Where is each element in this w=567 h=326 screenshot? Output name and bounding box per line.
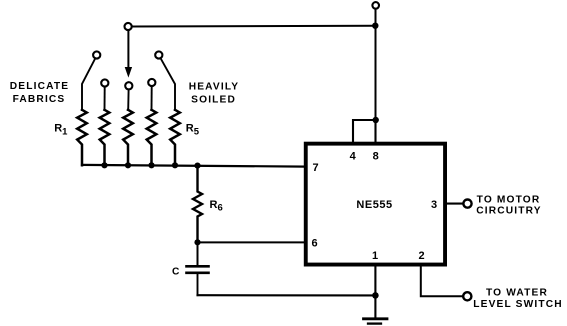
switch contact 3 [125, 82, 132, 89]
terminal: selector common [125, 23, 132, 30]
svg-text:3: 3 [431, 199, 437, 211]
svg-text:NE555: NE555 [356, 199, 392, 211]
capacitor C [197, 242, 199, 265]
wire: pin 2 to water level switch [421, 265, 462, 296]
wire: contact5 to R5 [161, 58, 175, 110]
op-amp U1: NE555 body [306, 144, 445, 265]
node [172, 162, 178, 168]
svg-text:1: 1 [372, 250, 378, 262]
node [194, 163, 200, 169]
resistor R6 [193, 166, 202, 242]
terminal: supply input [372, 2, 379, 9]
svg-text:SOILED: SOILED [191, 95, 236, 106]
node [194, 239, 200, 245]
svg-text:CIRCUITRY: CIRCUITRY [476, 206, 541, 217]
svg-text:R1: R1 [54, 123, 68, 138]
resistor R1 [77, 110, 87, 165]
node [148, 162, 154, 168]
svg-text:LEVEL SWITCH: LEVEL SWITCH [473, 299, 562, 310]
wire: contact2 to R2 [104, 87, 106, 110]
ground [364, 317, 388, 320]
wire: to pin 6 [198, 241, 306, 243]
svg-text:6: 6 [312, 238, 318, 250]
node [101, 162, 107, 168]
wiper arrow [127, 31, 129, 69]
wire: bottom bus to pin 7 [82, 165, 306, 167]
wire: top supply rail [132, 25, 376, 28]
wire: pin 1 to ground [374, 265, 376, 317]
svg-text:8: 8 [373, 150, 379, 162]
resistor R3 [123, 110, 133, 166]
wire: supply vertical [375, 9, 377, 120]
svg-text:2: 2 [418, 250, 424, 262]
node [373, 117, 379, 123]
node [125, 162, 131, 168]
switch contact 1 [93, 51, 100, 58]
svg-text:4: 4 [350, 150, 357, 162]
switch contact 4 [148, 79, 155, 86]
wire: pins 4-8 strap [353, 120, 376, 143]
svg-text:FABRICS: FABRICS [13, 94, 66, 105]
svg-text:HEAVILY: HEAVILY [189, 82, 240, 93]
svg-text:TO WATER: TO WATER [486, 287, 548, 298]
wire: bottom ground rail [198, 294, 376, 296]
switch contact 5 [155, 51, 162, 58]
svg-text:TO MOTOR: TO MOTOR [477, 194, 541, 205]
svg-text:R6: R6 [210, 199, 223, 214]
resistor R2 [100, 110, 110, 165]
resistor R5 [170, 110, 180, 166]
terminal: to motor circuitry [463, 200, 471, 208]
wire: pin 3 output [447, 203, 464, 205]
svg-text:7: 7 [313, 162, 319, 174]
resistor R4 [147, 110, 157, 166]
svg-text:C: C [172, 266, 180, 277]
svg-text:DELICATE: DELICATE [10, 81, 69, 92]
wire: contact3 to R3 [127, 90, 129, 110]
node [372, 292, 379, 299]
terminal: to water level switch [463, 292, 471, 300]
svg-text:R5: R5 [186, 123, 200, 138]
wire: contact4 to R4 [151, 86, 153, 110]
node: supply junction [372, 23, 378, 29]
switch contact 2 [101, 79, 108, 86]
wire: contact1 to R1 [82, 59, 95, 111]
